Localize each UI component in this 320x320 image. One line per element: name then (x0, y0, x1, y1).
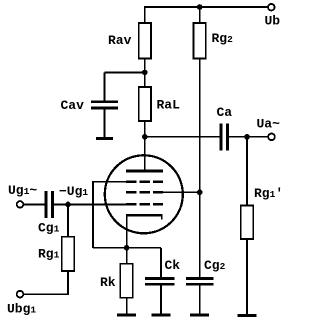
terminal Ua~ (257, 117, 281, 141)
node: top rail / Rg2 junction (197, 4, 203, 10)
wire: Rg1' bottom lead (246, 239, 248, 314)
tube U1 grid g2 (dashed) (126, 191, 163, 194)
node: grid-1 / Rg1 junction (65, 202, 71, 208)
svg-text:Rg1: Rg1 (38, 247, 60, 262)
node: anode junction (142, 134, 148, 140)
ground (Ck) (152, 314, 171, 317)
wire: Cav bottom lead (104, 110, 106, 138)
wire: anode node to Ca (145, 136, 220, 138)
node: cathode / Rk junction (124, 245, 130, 251)
svg-text:Ub: Ub (265, 14, 281, 29)
tube U1 cathode (126, 214, 163, 220)
terminal Ub (265, 4, 281, 29)
wire: rail down to Rav (144, 6, 146, 23)
wire: Rk bottom lead (126, 298, 128, 314)
capacitor Cg1 (38, 191, 60, 236)
wire: cathode bottom bus (93, 247, 161, 249)
svg-text:Rg1': Rg1' (254, 186, 283, 201)
wire: suppressor g3 lead to cathode column (93, 182, 126, 248)
wire: input terminal to Cg1 (23, 203, 44, 205)
wire: grid node down to Rg1 (67, 204, 69, 236)
tube U1 envelope (105, 155, 183, 233)
capacitor Cav (61, 98, 119, 113)
resistor Rk (100, 264, 133, 298)
wire: Cg2 bottom lead (199, 286, 201, 314)
resistor Rav (108, 23, 151, 59)
svg-text:Cav: Cav (61, 98, 85, 113)
wire: Ck top lead (160, 248, 162, 277)
wire: rail down to Rg2 (199, 7, 201, 23)
wire: Ca to Ua terminal (229, 136, 268, 138)
svg-text:Cg2: Cg2 (204, 258, 226, 273)
resistor Rg2 (194, 23, 234, 59)
resistor Rg1' (241, 186, 283, 239)
wire: RaL bottom to anode (144, 121, 146, 170)
svg-text:Rk: Rk (100, 275, 116, 290)
wire: Cg1 to control grid g1 (54, 203, 126, 205)
wire: Cav top lead (104, 72, 106, 100)
capacitor Ck (145, 258, 180, 286)
tube U1 grid g3 (dashed) (126, 181, 163, 184)
ground (Cg2) (190, 314, 209, 317)
svg-text:Ubg1: Ubg1 (7, 302, 36, 317)
tube U1 anode plate (126, 170, 163, 173)
wire: cathode lead down (126, 216, 128, 248)
wire: Cav branch horizontal (105, 71, 145, 73)
svg-text:Rav: Rav (108, 33, 132, 48)
node: screen grid junction (197, 190, 203, 196)
wire: top supply rail (145, 6, 271, 8)
capacitor Cg2 (186, 258, 226, 286)
node: Rav/Cav junction (142, 70, 148, 76)
wire: screen grid g2 lead (163, 191, 200, 193)
svg-text:Rg2: Rg2 (212, 31, 234, 46)
svg-text:Ug1~: Ug1~ (8, 183, 37, 198)
terminal Ug1~ (input) (8, 183, 37, 208)
resistor RaL (139, 87, 181, 121)
node: output / Rg1' junction (244, 134, 250, 140)
capacitor Ca (217, 105, 233, 151)
terminal Ubg1 (7, 291, 36, 317)
ground (Rg1') (238, 314, 257, 317)
wire: Rg1 bottom to Ubg1 (23, 271, 68, 294)
svg-text:Ua~: Ua~ (257, 117, 281, 132)
ground (Cav) (96, 137, 113, 140)
wire: Rg2 bottom to Cg2 (screen-grid net) (199, 59, 201, 278)
ground (Rk) (117, 314, 136, 317)
svg-text:−Ug1: −Ug1 (59, 184, 88, 199)
tube U1 grid g1 (dashed) (126, 203, 163, 206)
resistor Rg1 (38, 237, 74, 271)
wire: Ck bottom lead (160, 286, 162, 314)
wire: Ua node down to Rg1' (246, 137, 248, 206)
wire: Rk top lead (126, 248, 128, 264)
svg-text:Cg1: Cg1 (38, 221, 60, 236)
wire: Rav bottom to RaL top (144, 59, 146, 88)
svg-text:Ca: Ca (217, 105, 233, 120)
svg-text:Ck: Ck (165, 258, 181, 273)
svg-text:RaL: RaL (157, 98, 181, 113)
